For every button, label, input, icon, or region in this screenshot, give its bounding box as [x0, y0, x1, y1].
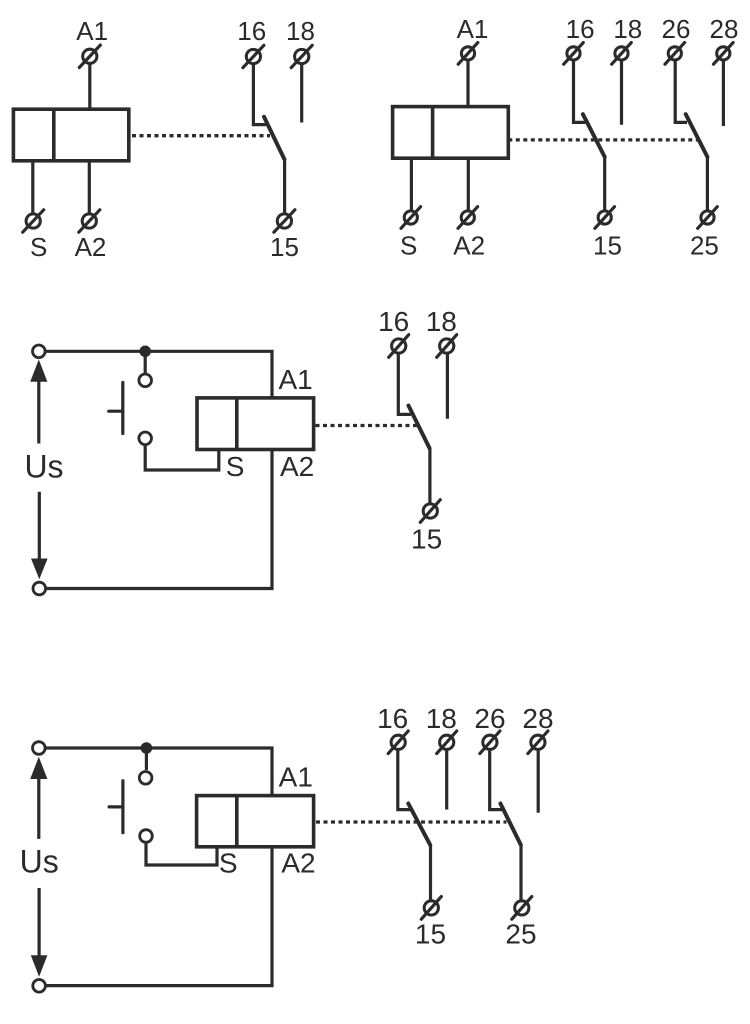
svg-text:16: 16 [566, 14, 595, 44]
wire A2 leg [88, 161, 91, 213]
wire 28 [537, 750, 540, 813]
button upper contact circle [139, 374, 152, 387]
terminal S [401, 207, 421, 229]
down arrow shaft [38, 492, 41, 560]
wire 15 leg [603, 157, 606, 210]
down arrow shaft [37, 888, 40, 956]
svg-text:25: 25 [690, 231, 719, 261]
svg-text:A1: A1 [76, 16, 108, 46]
dotted actuation link [508, 138, 698, 141]
wire 15 leg [429, 845, 432, 901]
wire 16 with fixed-contact stub [398, 750, 412, 810]
terminal A1 [79, 45, 100, 67]
supply terminal top (open circle) [33, 742, 46, 755]
wire 25 leg [519, 845, 522, 901]
svg-text:18: 18 [426, 703, 457, 734]
down arrowhead [31, 559, 48, 580]
push-button actuator stub [109, 410, 123, 413]
dotted actuation link [316, 424, 419, 427]
wire 16 with fixed-contact stub [253, 64, 266, 125]
up arrow shaft [37, 778, 40, 839]
top supply wire [45, 748, 272, 796]
svg-text:S: S [226, 451, 245, 482]
wire 16 with fixed-contact stub [398, 353, 411, 414]
svg-text:15: 15 [593, 231, 622, 261]
up arrowhead [30, 360, 47, 382]
wire S leg [31, 161, 34, 213]
terminal S [23, 210, 44, 232]
contact blade 25 [686, 114, 708, 157]
wire 15 leg [283, 159, 286, 214]
svg-text:S: S [219, 847, 238, 878]
top supply wire [45, 351, 272, 398]
terminal 15 [421, 897, 441, 920]
svg-text:26: 26 [662, 14, 691, 44]
relay coil box K1 [13, 109, 128, 161]
wire A2 return [46, 847, 272, 986]
svg-text:A1: A1 [457, 14, 489, 44]
contact blade 15 [583, 114, 605, 157]
push-button actuator bar [121, 781, 124, 833]
svg-text:A2: A2 [453, 231, 485, 261]
wire A2 leg [467, 158, 470, 210]
down arrowhead [31, 955, 48, 976]
svg-text:A1: A1 [279, 762, 313, 793]
terminal 26 [480, 731, 500, 754]
junction node [139, 346, 151, 358]
svg-text:28: 28 [522, 703, 553, 734]
svg-text:25: 25 [505, 918, 536, 949]
wire S leg [410, 158, 413, 210]
contact blade 25 [500, 804, 520, 845]
terminal 18 [612, 43, 632, 65]
svg-text:18: 18 [613, 14, 642, 44]
coil box divider [235, 398, 239, 450]
wire 15 leg [428, 448, 431, 504]
coil box divider [431, 107, 435, 159]
up arrow shaft [37, 381, 40, 444]
terminal 16 [564, 43, 584, 65]
svg-text:18: 18 [426, 306, 457, 337]
contact blade 15 [409, 406, 430, 449]
wire 26 with fixed-contact stub [490, 750, 504, 810]
terminal 16 [388, 731, 408, 754]
dotted actuation link [316, 820, 507, 823]
terminal 15 [595, 207, 615, 229]
button lower contact circle [139, 432, 152, 445]
supply terminal bottom (open circle) [33, 582, 46, 595]
terminal 25 [698, 207, 718, 229]
svg-text:16: 16 [377, 703, 408, 734]
svg-text:A1: A1 [278, 364, 312, 395]
svg-text:A2: A2 [280, 451, 314, 482]
wire junction to button [144, 351, 147, 374]
wire 18 [446, 353, 449, 419]
svg-text:15: 15 [270, 232, 299, 262]
wire 16 with fixed-contact stub [574, 61, 586, 123]
terminal 28 [714, 43, 734, 65]
svg-text:Us: Us [20, 843, 59, 879]
terminal 18 [437, 731, 457, 754]
svg-text:A2: A2 [75, 232, 107, 262]
coil box divider [235, 796, 239, 847]
wire A1 to coil [466, 61, 469, 107]
terminal 16 [389, 335, 409, 358]
up arrowhead [30, 757, 47, 779]
terminal 18 [437, 335, 457, 358]
svg-text:16: 16 [378, 306, 409, 337]
wire 18 [300, 64, 303, 123]
svg-text:Us: Us [24, 448, 63, 484]
button upper contact circle [139, 772, 152, 785]
terminal 25 [512, 897, 532, 920]
relay coil box K2 [393, 107, 509, 159]
contact blade 15 [408, 804, 430, 845]
dotted actuation link [132, 134, 270, 137]
terminal A2 [79, 210, 100, 232]
wire button to S terminal of coil [145, 445, 219, 470]
svg-text:S: S [30, 232, 47, 262]
terminal 26 [665, 43, 685, 65]
wire junction to button [145, 748, 148, 770]
svg-text:26: 26 [474, 703, 505, 734]
relay coil box K4 [197, 796, 314, 847]
supply terminal top (open circle) [33, 345, 46, 358]
coil box divider [52, 109, 56, 161]
terminal 15 [274, 210, 295, 232]
wire 18 [445, 750, 448, 810]
push-button actuator stub [109, 805, 123, 808]
wire button to S terminal of coil [146, 843, 217, 866]
wire 28 [722, 61, 725, 126]
button lower contact circle [140, 830, 153, 843]
svg-text:18: 18 [286, 16, 315, 46]
terminal 18 [291, 45, 312, 67]
wire 26 with fixed-contact stub [675, 61, 687, 123]
terminal 15 [420, 500, 440, 523]
svg-text:15: 15 [411, 523, 442, 554]
relay coil box K3 [197, 398, 314, 450]
svg-text:A2: A2 [281, 847, 315, 878]
svg-text:28: 28 [710, 14, 739, 44]
svg-text:16: 16 [237, 16, 266, 46]
svg-text:15: 15 [415, 918, 446, 949]
terminal A1 [458, 43, 478, 65]
junction node [141, 742, 153, 754]
wire A2 return [46, 450, 272, 589]
wire 18 [620, 61, 623, 125]
wire 25 leg [706, 157, 709, 210]
push-button actuator bar [121, 383, 124, 434]
terminal 16 [243, 45, 264, 67]
wire A1 to coil [88, 64, 91, 110]
supply terminal bottom (open circle) [33, 980, 46, 993]
terminal A2 [458, 207, 478, 229]
svg-text:S: S [400, 231, 417, 261]
terminal 28 [528, 731, 548, 754]
contact blade 15 [264, 117, 284, 159]
